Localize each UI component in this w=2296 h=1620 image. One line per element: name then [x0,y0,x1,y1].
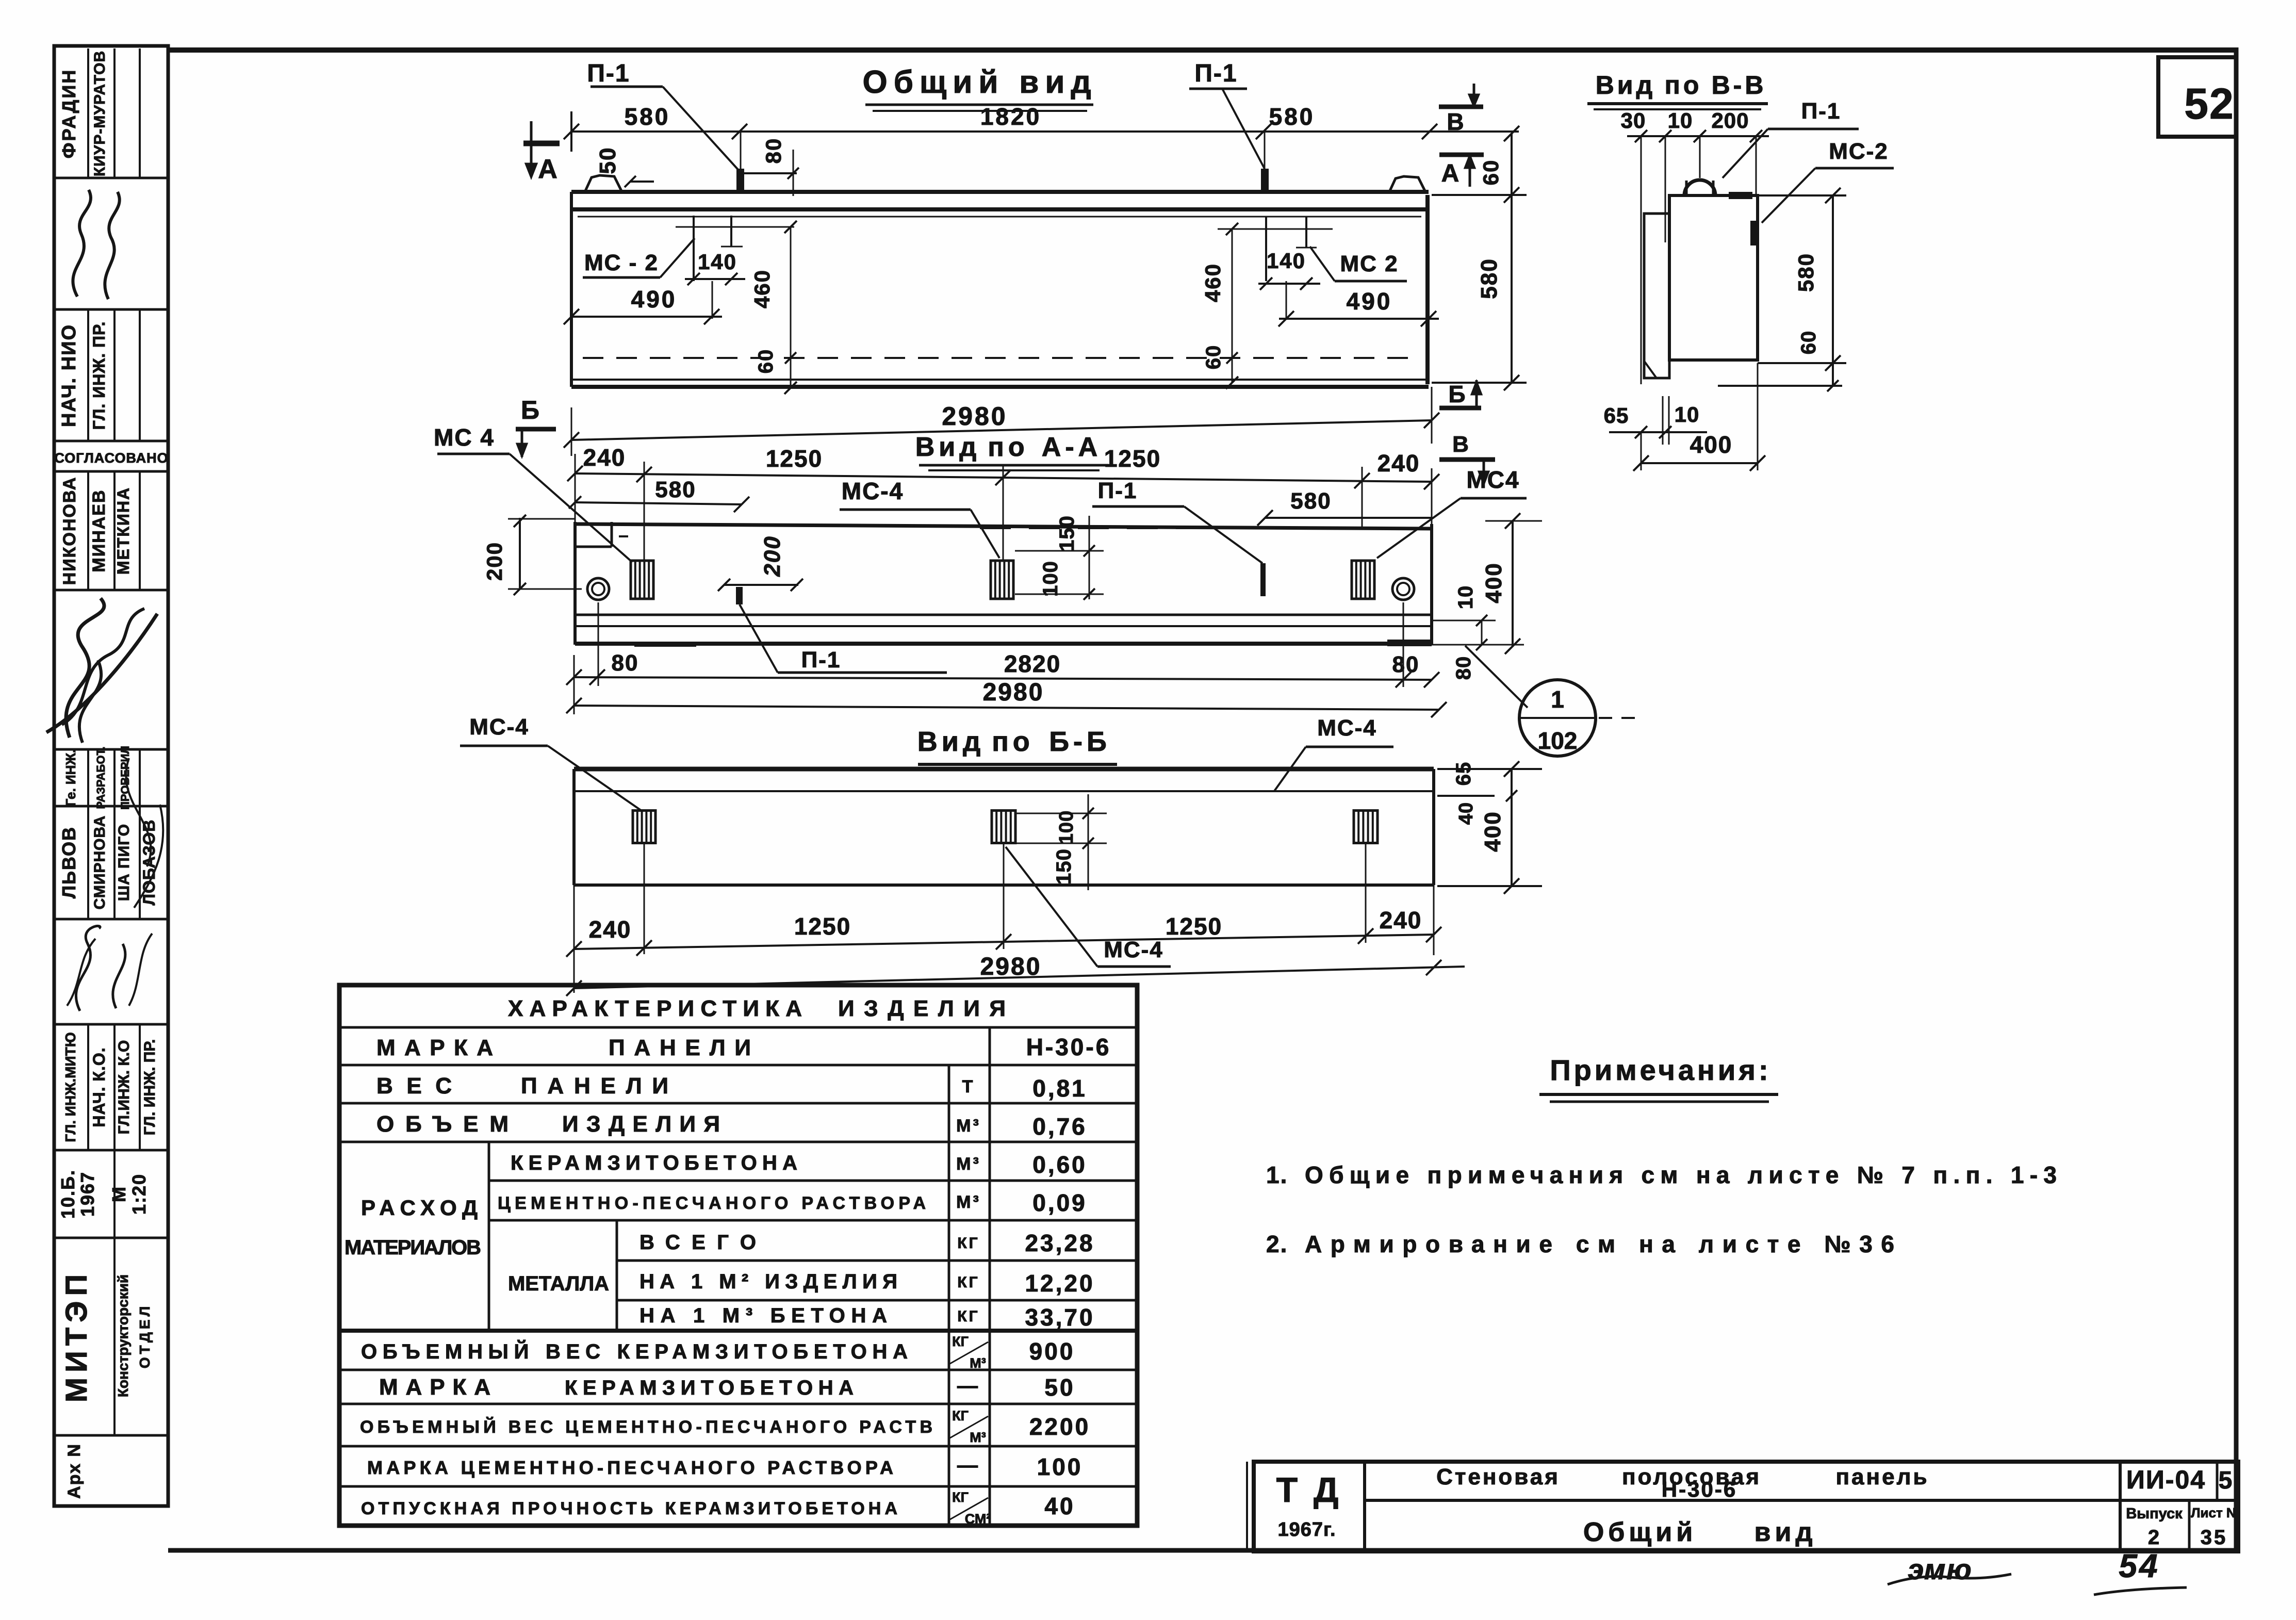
svg-text:400: 400 [1480,811,1505,852]
svg-text:2200: 2200 [1029,1413,1090,1440]
svg-text:Общий: Общий [862,64,1004,100]
svg-text:10: 10 [1454,585,1477,610]
svg-text:ВЕС: ВЕС [376,1073,454,1099]
svg-text:НИКОНОВА: НИКОНОВА [60,477,79,585]
svg-text:П-1: П-1 [1098,478,1138,503]
svg-text:40: 40 [1044,1493,1075,1519]
svg-text:СМИРНОВА: СМИРНОВА [91,815,108,910]
svg-text:240: 240 [1377,450,1420,477]
svg-text:1: 1 [1551,686,1564,713]
svg-text:100: 100 [1037,1453,1083,1480]
svg-text:ЛЬВОВ: ЛЬВОВ [58,826,79,898]
svg-text:Т: Т [962,1077,975,1097]
svg-text:ОБЪЕМНЫЙ ВЕС ЦЕМЕНТНО-ПЕСЧАН: ОБЪЕМНЫЙ ВЕС ЦЕМЕНТНО-ПЕСЧАНОГО РАСТВ [360,1417,932,1437]
svg-text:460: 460 [750,269,774,308]
svg-text:ОБЪЕМНЫЙ ВЕС КЕРАМЗИТОБЕТОНА: ОБЪЕМНЫЙ ВЕС КЕРАМЗИТОБЕТОНА [361,1339,908,1363]
svg-text:Выпуск: Выпуск [2126,1506,2183,1522]
svg-text:Вид: Вид [915,432,981,462]
svg-text:52: 52 [2184,79,2234,128]
svg-text:Лист N: Лист N [2191,1505,2236,1520]
svg-text:М³: М³ [956,1154,981,1174]
svg-text:Армирование см на листе №3: Армирование см на листе №36 [1305,1231,1895,1257]
svg-text:ЦЕМЕНТНО-ПЕСЧАНОГО РАСТВОРА: ЦЕМЕНТНО-ПЕСЧАНОГО РАСТВОРА [498,1193,926,1213]
svg-text:1250: 1250 [1104,445,1161,472]
svg-text:МС4: МС4 [1466,466,1519,493]
svg-text:вид: вид [1019,64,1097,100]
svg-text:КЕРАМЗИТОБЕТОНА: КЕРАМЗИТОБЕТОНА [511,1152,799,1174]
svg-text:КГ: КГ [952,1490,969,1505]
svg-text:КЕРАМЗИТОБЕТОНА: КЕРАМЗИТОБЕТОНА [565,1377,854,1399]
svg-text:ПАНЕЛИ: ПАНЕЛИ [609,1035,753,1060]
svg-text:МИТЭП: МИТЭП [60,1269,93,1402]
svg-text:5: 5 [2219,1467,2235,1494]
svg-text:по: по [992,726,1034,757]
svg-text:200: 200 [482,542,506,581]
svg-text:Общие примечания см на лис: Общие примечания см на листе № 7 п.п. 1-… [1305,1161,2058,1188]
svg-text:Конструкторский: Конструкторский [115,1274,131,1397]
svg-text:ИИ-04: ИИ-04 [2126,1465,2206,1494]
svg-text:0,60: 0,60 [1032,1151,1087,1178]
svg-text:1250: 1250 [1166,913,1222,940]
svg-text:НАЧ. НИО: НАЧ. НИО [58,324,80,427]
svg-text:ОБЪЕМ: ОБЪЕМ [376,1111,511,1137]
svg-text:В: В [1447,108,1464,135]
svg-text:П-1: П-1 [587,60,630,87]
svg-text:ИЗДЕЛИЯ: ИЗДЕЛИЯ [562,1111,722,1137]
svg-text:М³: М³ [970,1430,986,1445]
svg-text:80: 80 [1392,652,1420,677]
svg-text:А: А [538,154,557,184]
svg-text:РАСХОД: РАСХОД [361,1196,480,1220]
svg-text:КГ: КГ [957,1308,979,1325]
svg-text:580: 580 [625,103,670,130]
svg-text:—: — [957,1374,980,1397]
svg-text:ПАНЕЛИ: ПАНЕЛИ [521,1073,670,1099]
svg-text:—: — [957,1454,980,1477]
svg-text:200: 200 [760,535,785,577]
svg-text:МС-4: МС-4 [842,478,904,504]
svg-text:2980: 2980 [942,402,1007,431]
svg-text:ФРАДИН: ФРАДИН [58,69,79,158]
svg-text:ГЛ. ИНЖ. ПР.: ГЛ. ИНЖ. ПР. [90,321,108,430]
svg-text:65: 65 [1452,762,1475,786]
svg-text:1:20: 1:20 [128,1173,150,1215]
svg-text:490: 490 [631,286,677,313]
svg-text:ИЗДЕЛИЯ: ИЗДЕЛИЯ [838,996,1006,1021]
svg-text:60: 60 [755,349,777,374]
svg-text:100: 100 [1056,810,1077,844]
svg-text:МАРКА: МАРКА [379,1374,493,1400]
svg-text:М³: М³ [956,1116,981,1136]
svg-text:КИУР-МУРАТОВ: КИУР-МУРАТОВ [91,51,108,176]
svg-text:1967: 1967 [77,1171,98,1217]
svg-text:Арх N: Арх N [64,1443,84,1499]
svg-text:Стеновая: Стеновая [1436,1464,1560,1490]
svg-text:ГЛ. ИНЖ.МИТЮ: ГЛ. ИНЖ.МИТЮ [62,1032,78,1142]
svg-text:СМ²: СМ² [965,1511,991,1527]
svg-text:Т Д: Т Д [1276,1470,1342,1510]
svg-text:МАРКА: МАРКА [376,1035,495,1060]
svg-text:А: А [1441,160,1459,187]
svg-text:400: 400 [1481,562,1506,603]
svg-text:35: 35 [2201,1526,2228,1549]
svg-text:140: 140 [698,250,737,274]
svg-text:В: В [1452,432,1469,457]
svg-text:900: 900 [1029,1338,1075,1365]
svg-text:ГЛ. ИНЖ. ПР.: ГЛ. ИНЖ. ПР. [141,1039,158,1135]
svg-text:400: 400 [1690,431,1733,458]
svg-text:МС 4: МС 4 [434,424,495,451]
svg-text:240: 240 [1380,907,1422,934]
svg-text:65: 65 [1604,403,1629,428]
svg-text:П-1: П-1 [801,647,841,673]
svg-text:В-В: В-В [1712,71,1767,100]
svg-text:НАЧ. К.О.: НАЧ. К.О. [90,1047,108,1127]
svg-text:1820: 1820 [980,103,1041,130]
svg-text:1250: 1250 [794,913,851,940]
svg-text:МЕТАЛЛА: МЕТАЛЛА [508,1272,611,1295]
svg-text:НА 1 М³ БЕТОНА: НА 1 М³ БЕТОНА [639,1304,887,1327]
svg-text:150: 150 [1053,848,1075,885]
svg-text:МС 2: МС 2 [1340,251,1398,276]
svg-text:ХАРАКТЕРИСТИКА: ХАРАКТЕРИСТИКА [508,996,802,1021]
svg-text:2980: 2980 [983,679,1044,706]
svg-text:2: 2 [2148,1526,2161,1549]
svg-text:КГ: КГ [952,1408,969,1423]
svg-text:МИНАЕВ: МИНАЕВ [89,489,109,572]
svg-text:10.Б.: 10.Б. [57,1169,78,1219]
svg-text:МАТЕРИАЛОВ: МАТЕРИАЛОВ [345,1236,481,1259]
svg-text:33,70: 33,70 [1025,1304,1094,1331]
svg-text:П-1: П-1 [1194,60,1237,87]
svg-text:МС-4: МС-4 [469,714,529,740]
svg-text:80: 80 [761,138,785,164]
svg-text:НА 1 М² ИЗДЕЛИЯ: НА 1 М² ИЗДЕЛИЯ [639,1270,897,1293]
svg-text:ША ПИГО: ША ПИГО [116,824,133,901]
svg-text:60: 60 [1202,345,1225,370]
svg-text:МАРКА ЦЕМЕНТНО-ПЕСЧАНОГО РАС: МАРКА ЦЕМЕНТНО-ПЕСЧАНОГО РАСТВОРА [367,1457,893,1478]
svg-text:А-А: А-А [1042,432,1102,462]
svg-text:Примечания:: Примечания: [1550,1054,1771,1086]
svg-text:1250: 1250 [766,445,823,472]
svg-text:12,20: 12,20 [1025,1270,1094,1297]
svg-text:0,81: 0,81 [1032,1075,1087,1102]
svg-text:10: 10 [1668,108,1693,133]
svg-text:ОТДЕЛ: ОТДЕЛ [137,1303,153,1368]
svg-text:Н-30-6: Н-30-6 [1026,1034,1111,1060]
svg-text:580: 580 [1794,253,1818,292]
svg-text:ГЛ.ИНЖ. К.О: ГЛ.ИНЖ. К.О [116,1040,133,1135]
svg-text:М³: М³ [970,1355,986,1371]
svg-text:80: 80 [612,650,639,676]
svg-text:панель: панель [1835,1464,1929,1490]
svg-text:ОТПУСКНАЯ ПРОЧНОСТЬ КЕРАМЗИТ: ОТПУСКНАЯ ПРОЧНОСТЬ КЕРАМЗИТОБЕТОНА [361,1499,897,1518]
svg-text:40: 40 [1455,802,1477,825]
svg-text:КГ: КГ [957,1274,979,1291]
svg-text:60: 60 [1797,331,1820,355]
svg-text:2820: 2820 [1004,650,1061,677]
svg-text:0,76: 0,76 [1032,1113,1087,1140]
svg-text:50: 50 [595,147,620,174]
svg-text:240: 240 [583,444,626,471]
svg-text:Б-Б: Б-Б [1049,726,1111,757]
svg-text:КГ: КГ [952,1334,969,1349]
svg-text:МС - 2: МС - 2 [584,250,659,275]
svg-text:П-1: П-1 [1801,99,1841,124]
svg-text:100: 100 [1039,561,1062,597]
svg-text:2.: 2. [1266,1231,1288,1257]
svg-text:1.: 1. [1266,1161,1288,1188]
svg-text:1967г.: 1967г. [1277,1519,1336,1541]
svg-text:Вид: Вид [1596,71,1656,100]
svg-text:КГ: КГ [957,1235,979,1252]
svg-text:54: 54 [2119,1547,2159,1584]
svg-text:10: 10 [1675,402,1700,427]
svg-text:СОГЛАСОВАНО: СОГЛАСОВАНО [54,450,168,466]
svg-text:МЕТКИНА: МЕТКИНА [114,487,133,575]
svg-text:по: по [1665,71,1702,100]
svg-text:эмю: эмю [1908,1553,1972,1585]
svg-text:460: 460 [1201,263,1225,302]
svg-text:580: 580 [1477,258,1502,299]
svg-text:200: 200 [1711,108,1749,133]
svg-text:580: 580 [655,477,696,502]
svg-text:0,09: 0,09 [1032,1189,1087,1216]
svg-text:по: по [988,432,1028,462]
svg-text:МС-2: МС-2 [1829,139,1889,164]
svg-text:240: 240 [589,916,632,943]
svg-text:150: 150 [1056,515,1078,551]
svg-text:М: М [108,1186,129,1202]
svg-text:580: 580 [1269,103,1315,130]
svg-text:50: 50 [1044,1374,1075,1401]
svg-text:ВСЕГО: ВСЕГО [639,1231,758,1254]
svg-text:23,28: 23,28 [1025,1230,1094,1256]
svg-text:МС-4: МС-4 [1317,715,1377,741]
svg-text:вид: вид [1754,1517,1817,1547]
svg-text:М³: М³ [956,1192,981,1212]
svg-text:РАЗРАБОТ.: РАЗРАБОТ. [94,746,107,809]
svg-text:Б: Б [521,396,539,424]
svg-text:140: 140 [1267,249,1306,273]
svg-text:Н-30-6: Н-30-6 [1662,1477,1737,1501]
svg-text:Общий: Общий [1583,1517,1697,1547]
svg-text:Б: Б [1448,381,1465,407]
svg-text:490: 490 [1347,288,1392,315]
svg-text:580: 580 [1290,488,1331,514]
svg-text:80: 80 [1452,656,1475,680]
svg-text:102: 102 [1538,727,1578,754]
svg-text:Вид: Вид [917,726,985,757]
svg-text:30: 30 [1621,108,1646,133]
svg-text:60: 60 [1479,159,1503,186]
svg-text:Ге. ИНЖ.: Ге. ИНЖ. [63,749,78,807]
